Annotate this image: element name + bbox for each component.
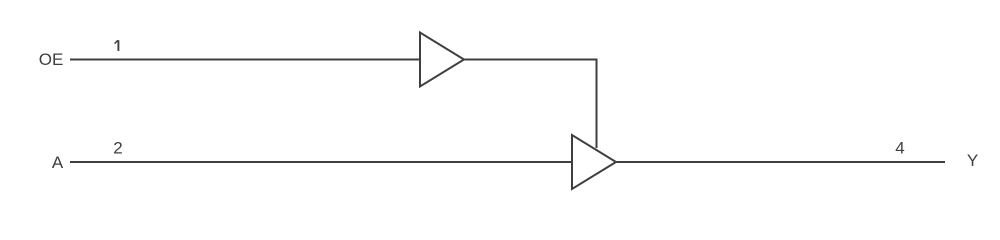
pin 1 label bbox=[115, 40, 119, 51]
svg-text:2: 2 bbox=[113, 139, 122, 158]
wire U1a output to U1b enable (corner at 596.5,59.5) bbox=[464, 60, 597, 149]
wire A to buffer U1b input bbox=[70, 161, 572, 163]
svg-text:4: 4 bbox=[895, 139, 904, 158]
svg-text:OE: OE bbox=[39, 50, 64, 69]
buffer U1a bbox=[420, 33, 464, 87]
svg-text:A: A bbox=[52, 153, 64, 172]
buffer U1b bbox=[572, 135, 616, 189]
wire U1b output to Y bbox=[616, 161, 945, 163]
wire OE to buffer U1a input bbox=[70, 59, 420, 61]
svg-text:Y: Y bbox=[967, 151, 978, 170]
